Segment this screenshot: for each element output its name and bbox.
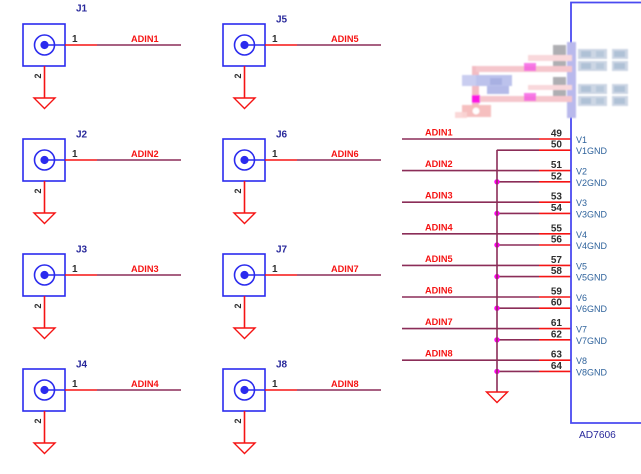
svg-text:V7: V7 <box>576 325 587 335</box>
svg-text:J7: J7 <box>276 244 288 255</box>
svg-text:V4GND: V4GND <box>576 241 608 251</box>
pin 51 (V2) stub <box>539 170 571 172</box>
svg-text:51: 51 <box>551 160 563 171</box>
svg-text:59: 59 <box>551 287 563 298</box>
svg-text:ADIN1: ADIN1 <box>131 34 159 44</box>
wire ADIN3 <box>97 274 181 276</box>
svg-text:ADIN7: ADIN7 <box>331 264 359 274</box>
pin 50 (V1GND) stub <box>539 149 571 151</box>
svg-text:ADIN2: ADIN2 <box>131 149 159 159</box>
junction (GND bus / pin 64) <box>494 369 499 374</box>
J3 pin 2 (stub) <box>44 296 46 328</box>
svg-text:ADIN2: ADIN2 <box>425 159 453 169</box>
svg-text:2: 2 <box>33 303 43 308</box>
svg-text:V2GND: V2GND <box>576 178 608 188</box>
J7 pin 2 (stub) <box>244 296 246 328</box>
svg-text:J6: J6 <box>276 129 288 140</box>
wire GND branch (to pin 50) <box>497 149 539 151</box>
J2 pin 1 (stub) <box>65 159 97 161</box>
junction (GND bus / pin 58) <box>494 274 499 279</box>
connector J8 <box>223 369 265 411</box>
wire ADIN6 <box>297 159 381 161</box>
pin 60 (V6GND) stub <box>539 307 571 309</box>
svg-text:V5: V5 <box>576 261 587 271</box>
svg-text:V1GND: V1GND <box>576 146 608 156</box>
svg-text:J4: J4 <box>76 359 88 370</box>
connector J7 <box>223 254 265 296</box>
svg-text:55: 55 <box>551 223 563 234</box>
junction (GND bus / pin 56) <box>494 242 499 247</box>
wire ADIN2 <box>97 159 181 161</box>
wire GND branch (to pin 62) <box>497 339 539 341</box>
svg-text:1: 1 <box>72 149 78 160</box>
svg-text:64: 64 <box>551 361 563 372</box>
svg-text:ADIN6: ADIN6 <box>425 286 453 296</box>
J1 pin 1 (stub) <box>65 44 97 46</box>
svg-text:57: 57 <box>551 255 563 266</box>
J3 pin 1 (stub) <box>65 274 97 276</box>
svg-text:V3GND: V3GND <box>576 209 608 219</box>
pin 49 (V1) stub <box>539 138 571 140</box>
J8 pin 1 (stub) <box>265 389 297 391</box>
junction (GND bus / pin 62) <box>494 337 499 342</box>
svg-text:ADIN8: ADIN8 <box>331 379 359 389</box>
pin 52 (V2GND) stub <box>539 181 571 183</box>
svg-text:V5GND: V5GND <box>576 273 608 283</box>
wire ADIN6 (to pin 59) <box>402 296 539 298</box>
svg-text:1: 1 <box>272 379 278 390</box>
pin 63 (V8) stub <box>539 359 571 361</box>
svg-text:1: 1 <box>272 264 278 275</box>
connector J3 <box>23 254 65 296</box>
wire GND bus (vertical) <box>496 150 498 392</box>
svg-text:V8GND: V8GND <box>576 367 608 377</box>
svg-text:62: 62 <box>551 329 563 340</box>
wire GND branch (to pin 58) <box>497 276 539 278</box>
svg-text:ADIN6: ADIN6 <box>331 149 359 159</box>
svg-text:49: 49 <box>551 129 563 140</box>
ground (J1 pin 2) <box>34 98 55 109</box>
wire ADIN8 (to pin 63) <box>402 359 539 361</box>
svg-text:ADIN3: ADIN3 <box>131 264 159 274</box>
svg-text:ADIN1: ADIN1 <box>425 128 453 138</box>
svg-text:2: 2 <box>233 303 243 308</box>
connector J2 <box>23 139 65 181</box>
J7 pin 1 (stub) <box>265 274 297 276</box>
svg-text:61: 61 <box>551 318 563 329</box>
wire GND branch (to pin 64) <box>497 370 539 372</box>
svg-text:2: 2 <box>33 188 43 193</box>
pin 59 (V6) stub <box>539 296 571 298</box>
wire ADIN3 (to pin 53) <box>402 201 539 203</box>
svg-text:60: 60 <box>551 298 563 309</box>
pin 64 (V8GND) stub <box>539 370 571 372</box>
svg-text:54: 54 <box>551 203 563 214</box>
J5 pin 2 (stub) <box>244 66 246 98</box>
junction (GND bus / pin 54) <box>494 211 499 216</box>
svg-text:J8: J8 <box>276 359 288 370</box>
svg-text:2: 2 <box>33 418 43 423</box>
wire ADIN2 (to pin 51) <box>402 170 539 172</box>
svg-text:ADIN5: ADIN5 <box>425 254 453 264</box>
wire GND branch (to pin 56) <box>497 244 539 246</box>
wire ADIN5 (to pin 57) <box>402 264 539 266</box>
svg-text:J3: J3 <box>76 244 88 255</box>
svg-text:ADIN4: ADIN4 <box>425 222 453 232</box>
ground (J5 pin 2) <box>234 98 255 109</box>
connector J6 <box>223 139 265 181</box>
svg-text:2: 2 <box>233 418 243 423</box>
pin 56 (V4GND) stub <box>539 244 571 246</box>
wire ADIN4 <box>97 389 181 391</box>
pin 57 (V5) stub <box>539 264 571 266</box>
wire ADIN4 (to pin 55) <box>402 233 539 235</box>
wire GND branch (to pin 52) <box>497 181 539 183</box>
pin 58 (V5GND) stub <box>539 276 571 278</box>
svg-text:1: 1 <box>272 149 278 160</box>
ground (J2 pin 2) <box>34 213 55 224</box>
svg-text:J2: J2 <box>76 129 88 140</box>
connector J4 <box>23 369 65 411</box>
op-amp/IC U1 AD7606 outline <box>571 3 641 424</box>
pin 54 (V3GND) stub <box>539 212 571 214</box>
pin 55 (V4) stub <box>539 233 571 235</box>
wire ADIN1 <box>97 44 181 46</box>
J4 pin 1 (stub) <box>65 389 97 391</box>
wire ADIN1 (to pin 49) <box>402 138 539 140</box>
J6 pin 1 (stub) <box>265 159 297 161</box>
ground (J7 pin 2) <box>234 328 255 339</box>
ground (J4 pin 2) <box>34 443 55 454</box>
junction (GND bus / pin 52) <box>494 179 499 184</box>
connector J1 <box>23 24 65 66</box>
J8 pin 2 (stub) <box>244 411 246 443</box>
J5 pin 1 (stub) <box>265 44 297 46</box>
svg-text:1: 1 <box>272 34 278 45</box>
svg-text:ADIN8: ADIN8 <box>425 349 453 359</box>
svg-text:J1: J1 <box>76 4 88 15</box>
wire ADIN5 <box>297 44 381 46</box>
svg-text:J5: J5 <box>276 14 288 25</box>
wire ADIN7 <box>297 274 381 276</box>
svg-text:ADIN5: ADIN5 <box>331 34 359 44</box>
junction (GND bus / pin 60) <box>494 306 499 311</box>
svg-text:ADIN7: ADIN7 <box>425 317 453 327</box>
J4 pin 2 (stub) <box>44 411 46 443</box>
ground (GND bus) <box>487 392 508 403</box>
J6 pin 2 (stub) <box>244 181 246 213</box>
wire ADIN7 (to pin 61) <box>402 328 539 330</box>
pin 62 (V7GND) stub <box>539 339 571 341</box>
svg-text:ADIN3: ADIN3 <box>425 191 453 201</box>
svg-text:1: 1 <box>72 379 78 390</box>
svg-text:1: 1 <box>72 34 78 45</box>
svg-text:58: 58 <box>551 266 563 277</box>
svg-text:63: 63 <box>551 350 563 361</box>
svg-text:52: 52 <box>551 171 563 182</box>
svg-text:V7GND: V7GND <box>576 336 608 346</box>
pin 53 (V3) stub <box>539 201 571 203</box>
wire GND branch (to pin 54) <box>497 212 539 214</box>
svg-text:2: 2 <box>233 188 243 193</box>
ground (J6 pin 2) <box>234 213 255 224</box>
svg-text:56: 56 <box>551 235 563 246</box>
ground (J3 pin 2) <box>34 328 55 339</box>
svg-text:V6GND: V6GND <box>576 304 608 314</box>
svg-text:50: 50 <box>551 140 563 151</box>
svg-text:V2: V2 <box>576 167 587 177</box>
connector J5 <box>223 24 265 66</box>
pin 61 (V7) stub <box>539 328 571 330</box>
wire GND branch (to pin 60) <box>497 307 539 309</box>
wire ADIN8 <box>297 389 381 391</box>
ground (J8 pin 2) <box>234 443 255 454</box>
svg-text:ADIN4: ADIN4 <box>131 379 159 389</box>
svg-text:V8: V8 <box>576 356 587 366</box>
svg-text:V6: V6 <box>576 293 587 303</box>
svg-text:2: 2 <box>233 73 243 78</box>
svg-text:1: 1 <box>72 264 78 275</box>
svg-text:AD7606: AD7606 <box>579 430 616 441</box>
svg-text:53: 53 <box>551 192 563 203</box>
censored mosaic region (blurred) <box>455 42 628 118</box>
svg-text:V3: V3 <box>576 198 587 208</box>
J1 pin 2 (stub) <box>44 66 46 98</box>
svg-text:V1: V1 <box>576 135 587 145</box>
J2 pin 2 (stub) <box>44 181 46 213</box>
svg-text:V4: V4 <box>576 230 587 240</box>
svg-text:2: 2 <box>33 73 43 78</box>
